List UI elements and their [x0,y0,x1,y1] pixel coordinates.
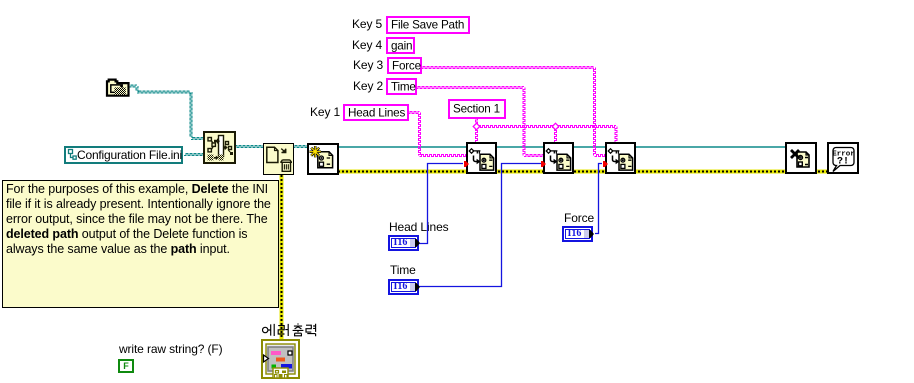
wire: Head Lines I16 to Write Key 1 value [419,164,463,244]
function: Write Key (Write Key 3) [605,142,636,174]
numeric constant I16: Force [562,226,593,242]
string constant: Head Lines [343,104,409,121]
string constant: Time [386,78,417,95]
wire: refnum chain Open Config to Close Config (solid teal) [338,146,786,148]
label Key 4 [352,39,382,51]
function: Write Key (Write Key 2) [543,142,574,174]
numeric constant I16: Time [388,279,419,295]
function: Write Key (Write Key 1) [466,142,497,174]
wire: folder path constant to Build Path input [129,85,204,140]
junction: Section net at Write Key 2 [552,123,559,130]
label Key 5 [352,18,382,30]
string constant: Force [387,57,422,74]
numeric constant I16: Head Lines [388,235,419,251]
function: Delete file [263,143,294,175]
free label: comment about Delete [2,180,279,308]
coercion dot (red) on Write Key 1 value input [464,161,469,167]
wire: error cluster chain Open Config to error handler (yellow/black dashed) [338,170,828,174]
wire: Force I16 to Write Key 3 value [595,164,602,234]
label Key 3 [353,59,383,71]
path constant: Configuration File.ini [64,146,183,164]
svg-text:?!: ?! [837,157,849,168]
wire: Delete error output down to error out indicator [280,175,284,341]
wire: Delete output path to Open Config Data [293,146,308,148]
label: Force [564,212,594,224]
coercion dot (red) on Write Key 2 value input [541,161,546,167]
wire: Force key string to Write Key 3 [421,67,594,69]
function: Simple Error Handler (Error ?!) [827,142,859,174]
wire: Time I16 to Write Key 2 value [419,164,541,287]
function: Open Config Data [307,143,339,175]
string constant: Section 1 [448,99,506,119]
wire: Configuration File.ini to Build Path name input [184,154,204,156]
junction: Section net at Write Key 1 [473,123,480,130]
label: error out (Korean) [262,323,318,337]
string constant: File Save Path [386,16,470,34]
wire: Head Lines key string to Write Key 1 [408,112,420,114]
label: Time [390,264,416,276]
wire: Time key string to Write Key 2 [416,87,524,89]
wire: Section 1 string net to three Write Key nodes [476,118,478,127]
string constant: gain [386,37,415,54]
label: write raw string? (F) [119,343,223,355]
indicator: error out cluster [261,339,301,380]
label Key 2 [353,80,383,92]
path constant: default directory folder icon [105,76,130,97]
label Key 1 [310,106,340,118]
wire: Build Path output to Delete path input [233,146,264,148]
coercion dot (red) on Write Key 3 value input [603,161,608,167]
function: Close Config Data [785,142,817,174]
boolean constant F (false) [118,359,134,373]
label: Head Lines [389,221,449,233]
function: Build Path [203,131,236,164]
